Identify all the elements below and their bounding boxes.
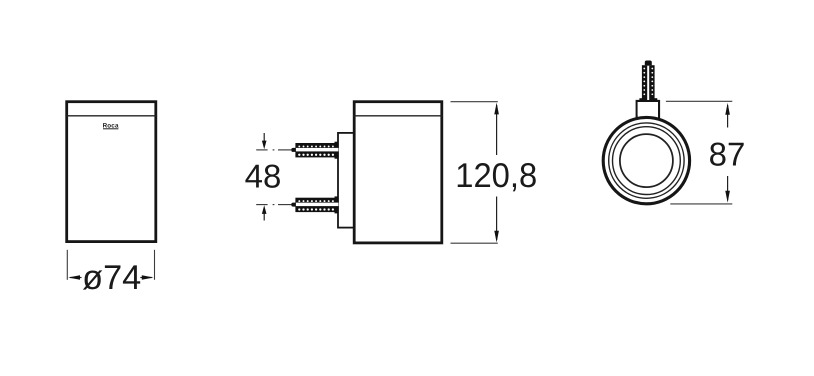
svg-text:48: 48	[245, 157, 282, 194]
svg-text:120,8: 120,8	[455, 157, 537, 195]
svg-text:87: 87	[709, 135, 746, 172]
svg-text:ø74: ø74	[82, 259, 141, 297]
